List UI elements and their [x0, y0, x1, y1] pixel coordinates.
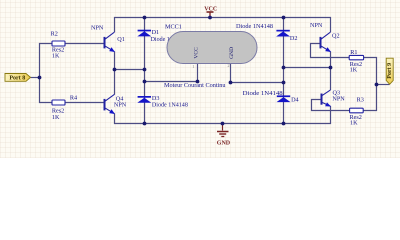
svg-text:GND: GND — [217, 140, 231, 146]
svg-text:Diode 1N4148: Diode 1N4148 — [243, 90, 283, 97]
svg-text:Diode 1N4148: Diode 1N4148 — [152, 101, 188, 108]
svg-text:2: 2 — [227, 63, 229, 68]
svg-text:D2: D2 — [290, 35, 298, 42]
svg-text:Port 9: Port 9 — [387, 63, 393, 79]
svg-text:VCC: VCC — [204, 7, 217, 13]
svg-text:MCC1: MCC1 — [165, 23, 182, 30]
svg-text:1: 1 — [192, 64, 194, 69]
svg-text:VCC: VCC — [194, 47, 200, 59]
svg-text:NPN: NPN — [332, 95, 345, 102]
svg-text:R2: R2 — [51, 30, 58, 37]
svg-text:NPN: NPN — [310, 22, 323, 29]
svg-text:NPN: NPN — [91, 25, 104, 32]
svg-text:R4: R4 — [70, 95, 77, 102]
svg-text:Diode 1N4148: Diode 1N4148 — [236, 23, 273, 30]
svg-text:D4: D4 — [291, 96, 299, 103]
svg-text:Moteur Courant Continu: Moteur Courant Continu — [164, 82, 226, 89]
svg-text:GND: GND — [229, 47, 235, 59]
svg-text:Q2: Q2 — [332, 33, 340, 40]
svg-text:Q1: Q1 — [117, 36, 125, 43]
svg-text:R1: R1 — [350, 49, 357, 56]
svg-text:R3: R3 — [357, 97, 364, 104]
svg-text:1K: 1K — [52, 53, 60, 60]
svg-text:1K: 1K — [52, 114, 60, 121]
svg-text:NPN: NPN — [114, 102, 127, 109]
svg-text:1K: 1K — [350, 120, 358, 127]
svg-text:Port 8: Port 8 — [9, 76, 25, 82]
svg-text:D1: D1 — [152, 29, 160, 36]
svg-text:1K: 1K — [350, 67, 358, 74]
